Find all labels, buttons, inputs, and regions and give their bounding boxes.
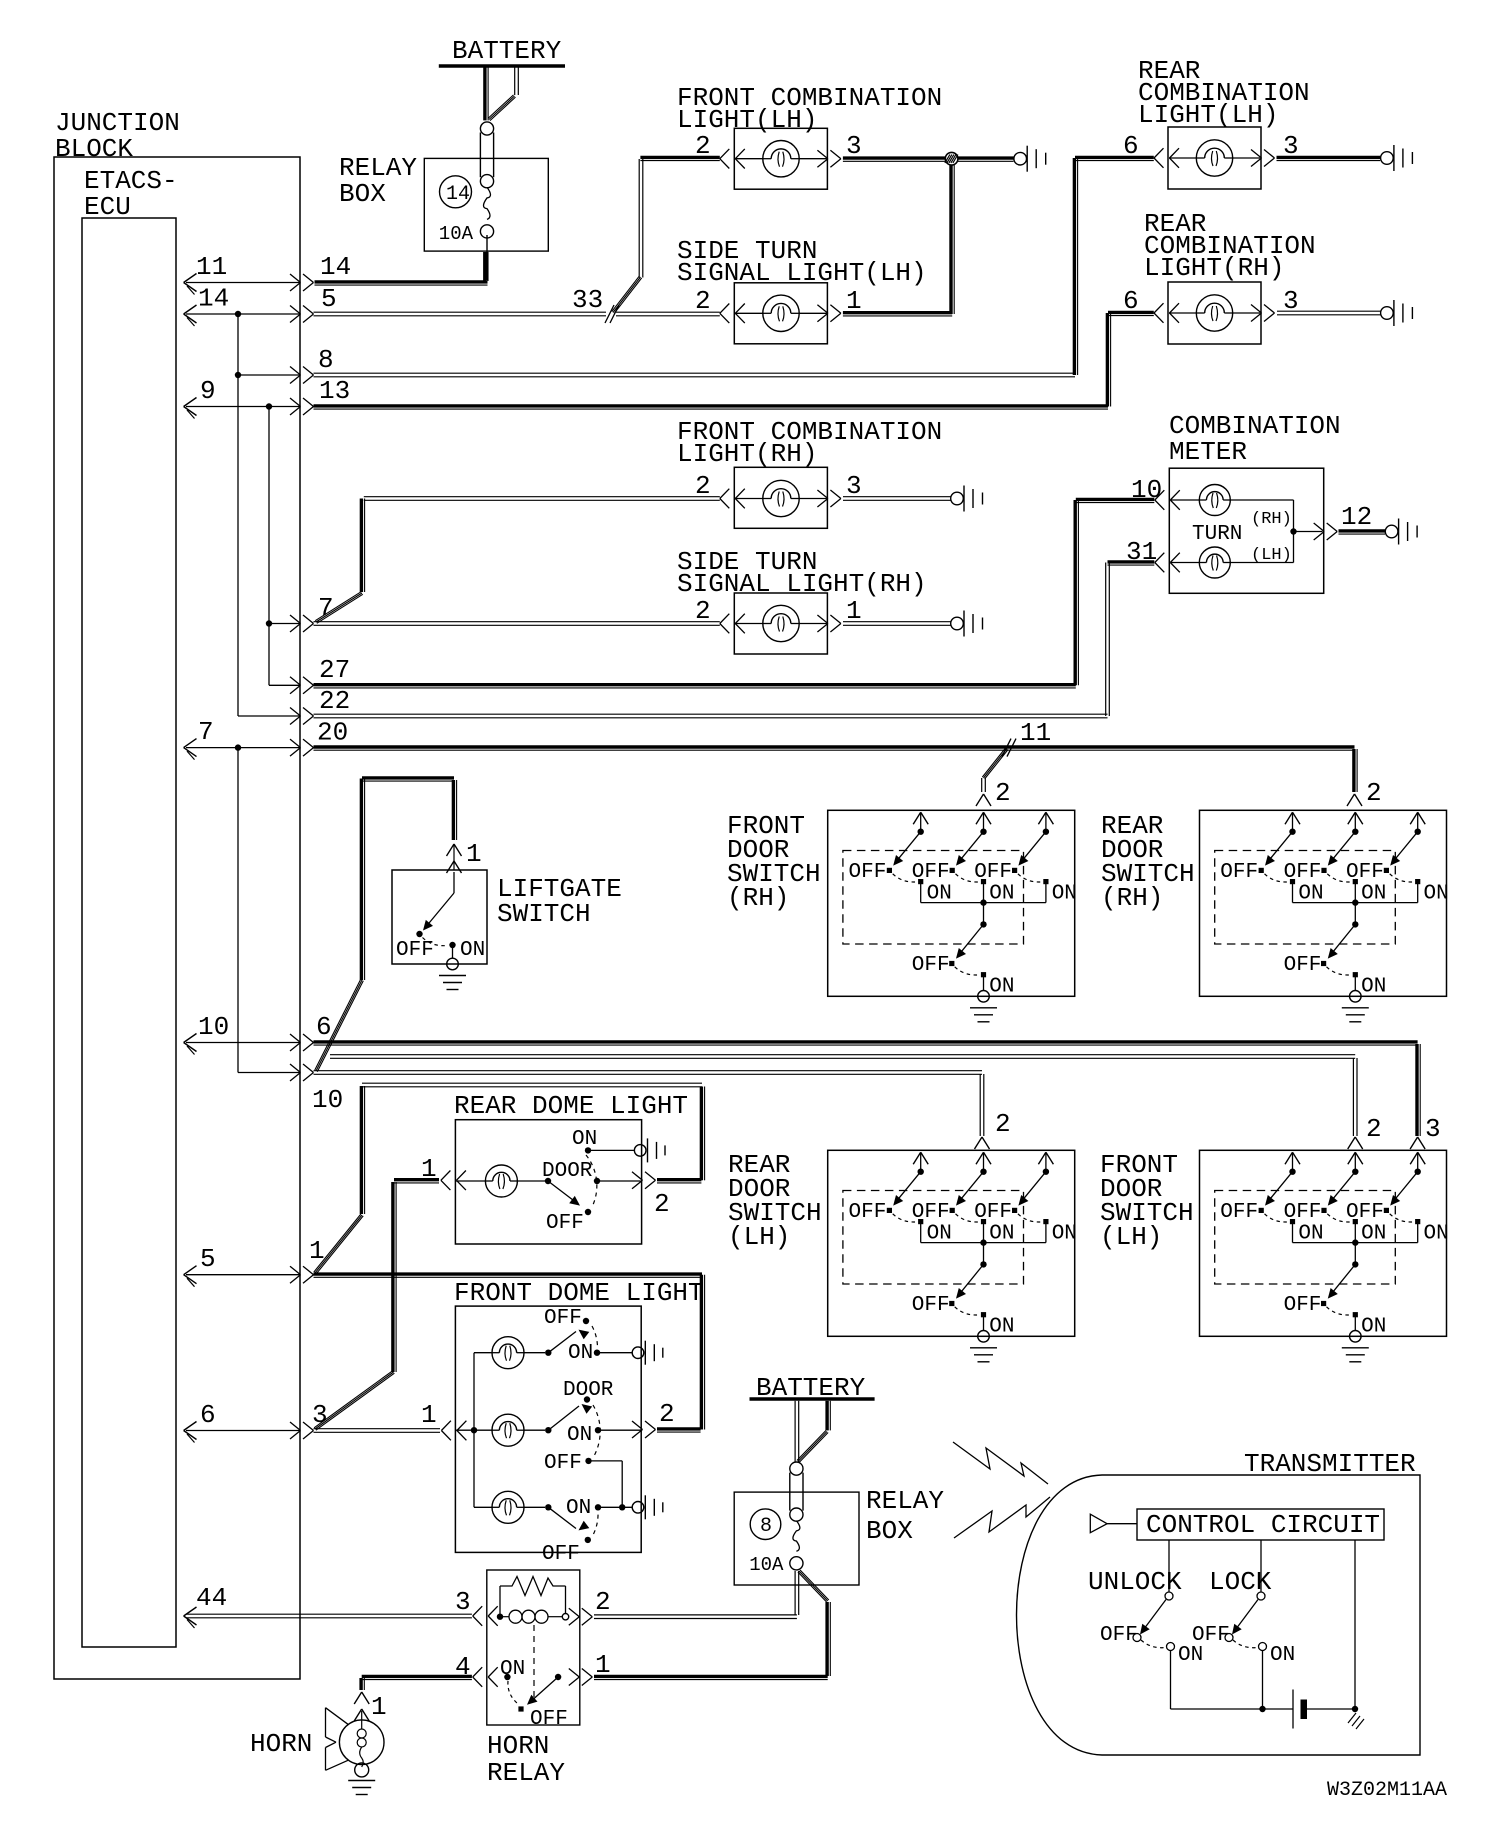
- svg-text:ON: ON: [927, 882, 952, 905]
- svg-text:6: 6: [1123, 286, 1139, 316]
- svg-text:8: 8: [760, 1515, 772, 1538]
- svg-text:ON: ON: [566, 1497, 591, 1520]
- svg-text:OFF: OFF: [1346, 861, 1384, 884]
- svg-text:DOOR: DOOR: [563, 1379, 614, 1402]
- svg-text:OFF: OFF: [912, 954, 950, 977]
- svg-text:10A: 10A: [439, 223, 474, 245]
- svg-text:14: 14: [198, 284, 229, 314]
- svg-text:ON: ON: [1361, 1315, 1386, 1338]
- svg-text:OFF: OFF: [974, 1201, 1012, 1224]
- svg-text:DOOR: DOOR: [542, 1160, 593, 1183]
- svg-text:TURN: TURN: [1192, 523, 1242, 546]
- svg-text:6: 6: [316, 1012, 332, 1042]
- svg-text:LIGHT(LH): LIGHT(LH): [677, 105, 817, 135]
- svg-text:BATTERY: BATTERY: [756, 1373, 866, 1403]
- svg-text:OFF: OFF: [849, 861, 887, 884]
- svg-text:7: 7: [198, 717, 214, 747]
- svg-text:(RH): (RH): [1251, 510, 1292, 529]
- svg-text:31: 31: [1126, 537, 1157, 567]
- svg-text:22: 22: [319, 686, 350, 716]
- svg-text:1: 1: [421, 1154, 437, 1184]
- svg-text:33: 33: [572, 285, 603, 315]
- svg-text:OFF: OFF: [1284, 1201, 1322, 1224]
- svg-text:OFF: OFF: [1100, 1624, 1138, 1647]
- svg-text:2: 2: [695, 131, 711, 161]
- svg-text:LOCK: LOCK: [1209, 1567, 1272, 1597]
- svg-text:ON: ON: [1178, 1644, 1203, 1667]
- svg-text:ON: ON: [460, 939, 485, 962]
- svg-text:OFF: OFF: [912, 1294, 950, 1317]
- svg-text:6: 6: [200, 1400, 216, 1430]
- svg-text:ON: ON: [1298, 882, 1323, 905]
- svg-text:OFF: OFF: [1284, 954, 1322, 977]
- svg-text:OFF: OFF: [1346, 1201, 1384, 1224]
- svg-text:ON: ON: [989, 975, 1014, 998]
- svg-text:ON: ON: [989, 882, 1014, 905]
- svg-text:2: 2: [995, 1109, 1011, 1139]
- svg-text:ON: ON: [989, 1315, 1014, 1338]
- svg-text:1: 1: [421, 1400, 437, 1430]
- svg-text:ON: ON: [568, 1342, 593, 1365]
- svg-text:OFF: OFF: [1284, 1294, 1322, 1317]
- svg-text:8: 8: [318, 345, 334, 375]
- svg-text:ON: ON: [1052, 882, 1077, 905]
- svg-text:2: 2: [654, 1189, 670, 1219]
- svg-text:UNLOCK: UNLOCK: [1088, 1567, 1182, 1597]
- svg-text:10: 10: [198, 1012, 229, 1042]
- svg-text:11: 11: [1020, 718, 1051, 748]
- svg-text:METER: METER: [1169, 437, 1247, 467]
- svg-text:OFF: OFF: [912, 861, 950, 884]
- svg-text:BATTERY: BATTERY: [452, 36, 562, 66]
- svg-text:HORN: HORN: [250, 1729, 312, 1759]
- svg-text:2: 2: [695, 286, 711, 316]
- svg-text:OFF: OFF: [544, 1307, 582, 1330]
- svg-text:(LH): (LH): [1251, 546, 1292, 565]
- svg-text:BLOCK: BLOCK: [55, 134, 133, 164]
- svg-text:1: 1: [466, 839, 482, 869]
- svg-text:ON: ON: [927, 1222, 952, 1245]
- svg-text:14: 14: [446, 183, 470, 206]
- svg-text:44: 44: [196, 1583, 227, 1613]
- svg-text:11: 11: [196, 252, 227, 282]
- svg-text:2: 2: [695, 471, 711, 501]
- svg-text:OFF: OFF: [546, 1212, 584, 1235]
- svg-text:RELAY: RELAY: [487, 1758, 565, 1788]
- svg-text:3: 3: [455, 1587, 471, 1617]
- svg-text:5: 5: [200, 1244, 216, 1274]
- svg-text:2: 2: [695, 596, 711, 626]
- svg-text:ON: ON: [989, 1222, 1014, 1245]
- svg-text:OFF: OFF: [1284, 861, 1322, 884]
- svg-text:ON: ON: [1361, 975, 1386, 998]
- svg-text:(LH): (LH): [728, 1222, 790, 1252]
- svg-text:OFF: OFF: [974, 861, 1012, 884]
- svg-text:13: 13: [319, 376, 350, 406]
- svg-text:SIGNAL LIGHT(LH): SIGNAL LIGHT(LH): [677, 258, 927, 288]
- svg-text:7: 7: [318, 593, 334, 623]
- svg-text:(RH): (RH): [727, 883, 789, 913]
- svg-text:2: 2: [995, 778, 1011, 808]
- svg-text:BOX: BOX: [866, 1516, 913, 1546]
- svg-text:ON: ON: [1298, 1222, 1323, 1245]
- svg-text:W3Z02M11AA: W3Z02M11AA: [1327, 1779, 1447, 1802]
- svg-text:14: 14: [320, 252, 351, 282]
- svg-text:OFF: OFF: [530, 1708, 568, 1731]
- svg-text:REAR DOME LIGHT: REAR DOME LIGHT: [454, 1091, 688, 1121]
- svg-text:2: 2: [659, 1399, 675, 1429]
- svg-text:12: 12: [1341, 502, 1372, 532]
- svg-text:BOX: BOX: [339, 179, 386, 209]
- svg-text:9: 9: [200, 376, 216, 406]
- svg-text:1: 1: [846, 286, 862, 316]
- svg-text:ON: ON: [1424, 1222, 1449, 1245]
- svg-text:FRONT DOME LIGHT: FRONT DOME LIGHT: [454, 1278, 704, 1308]
- svg-text:SWITCH: SWITCH: [497, 899, 591, 929]
- svg-text:10: 10: [1131, 475, 1162, 505]
- svg-text:2: 2: [1366, 778, 1382, 808]
- svg-text:OFF: OFF: [849, 1201, 887, 1224]
- svg-text:ON: ON: [1361, 882, 1386, 905]
- svg-text:(LH): (LH): [1100, 1222, 1162, 1252]
- svg-text:ON: ON: [1270, 1644, 1295, 1667]
- svg-text:ON: ON: [567, 1424, 592, 1447]
- svg-text:(RH): (RH): [1101, 883, 1163, 913]
- svg-text:ON: ON: [1052, 1222, 1077, 1245]
- svg-text:OFF: OFF: [544, 1452, 582, 1475]
- svg-text:ON: ON: [572, 1128, 597, 1151]
- svg-text:1: 1: [371, 1692, 387, 1722]
- svg-text:ECU: ECU: [84, 192, 131, 222]
- svg-text:LIGHT(RH): LIGHT(RH): [677, 439, 817, 469]
- svg-text:OFF: OFF: [912, 1201, 950, 1224]
- svg-text:CONTROL CIRCUIT: CONTROL CIRCUIT: [1146, 1510, 1380, 1540]
- svg-text:OFF: OFF: [1220, 861, 1258, 884]
- svg-text:2: 2: [595, 1587, 611, 1617]
- svg-text:2: 2: [1366, 1114, 1382, 1144]
- svg-text:10A: 10A: [749, 1554, 784, 1576]
- svg-text:20: 20: [317, 718, 348, 748]
- svg-text:HORN: HORN: [487, 1731, 549, 1761]
- svg-text:27: 27: [319, 655, 350, 685]
- svg-text:10: 10: [312, 1085, 343, 1115]
- svg-text:3: 3: [1425, 1114, 1441, 1144]
- svg-text:6: 6: [1123, 131, 1139, 161]
- svg-text:5: 5: [321, 284, 337, 314]
- svg-text:ON: ON: [500, 1658, 525, 1681]
- svg-text:SIGNAL LIGHT(RH): SIGNAL LIGHT(RH): [677, 569, 927, 599]
- svg-text:LIGHT(LH): LIGHT(LH): [1138, 100, 1278, 130]
- svg-text:LIGHT(RH): LIGHT(RH): [1144, 253, 1284, 283]
- svg-text:OFF: OFF: [1220, 1201, 1258, 1224]
- svg-text:OFF: OFF: [542, 1543, 580, 1566]
- svg-text:RELAY: RELAY: [866, 1486, 944, 1516]
- svg-text:ON: ON: [1424, 882, 1449, 905]
- svg-text:ON: ON: [1361, 1222, 1386, 1245]
- svg-text:OFF: OFF: [1192, 1624, 1230, 1647]
